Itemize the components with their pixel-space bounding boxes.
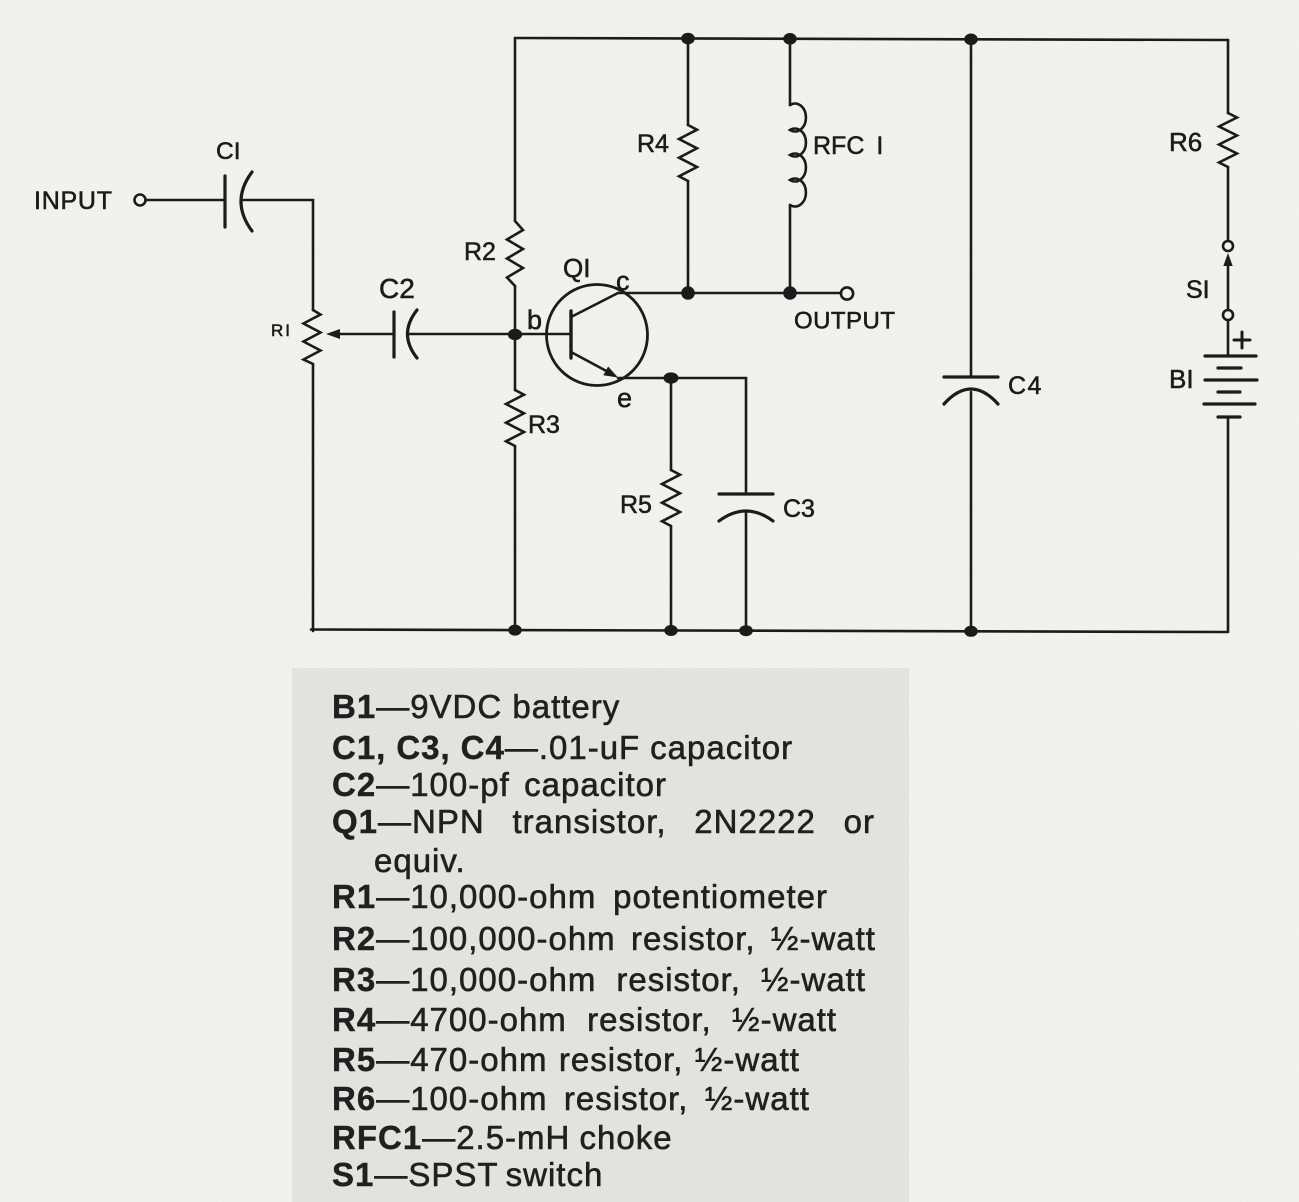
node b junction dot [508,329,522,340]
parts list gray background panel [292,668,909,1202]
wire: top supply rail [515,38,1228,40]
capacitor C3 [745,378,748,492]
OUTPUT terminal circle [841,287,853,299]
INPUT terminal circle [135,195,146,206]
inductor RFC1 [789,38,792,105]
capacitor C2 [394,310,417,358]
wire: INPUT terminal to C1 [146,199,224,202]
wire: collector line to OUTPUT [618,292,841,295]
junction dot R4 collector line [681,286,695,300]
parts list [332,690,620,723]
switch S1 [1223,241,1233,251]
transistor Q1 [515,285,648,386]
junction dot RFC1 collector line [783,286,797,300]
junction dot C3 ground [739,625,753,636]
wire: R1 bottom lead to ground rail [312,364,315,631]
wire: C1 to R1 top corner [243,200,313,310]
potentiometer R1 [304,310,321,364]
junction dot R3 ground [508,625,522,636]
junction dot RFC1 top rail [783,33,797,45]
wire: emitter line [618,377,746,380]
junction dot C4 top rail [964,34,978,46]
wire: battery to ground rail [1227,417,1230,631]
junction dot R4 top rail [681,33,695,45]
junction dot C4 ground [964,626,978,637]
label + polarity [1234,332,1250,348]
wire: C2 to node b [410,333,515,336]
resistor R6 [1227,40,1230,113]
resistor R3 [514,334,517,390]
capacitor C4 [970,38,973,375]
resistor R5 [670,378,673,470]
junction dot emitter node e [664,372,679,383]
capacitor C1 [225,172,252,231]
wire: S1 to battery [1227,320,1230,356]
junction dot R5 ground [664,625,678,636]
resistor R2 [514,38,517,221]
wire: bottom ground rail [311,630,1228,633]
resistor R4 [687,38,690,125]
potentiometer wiper arrow of R1 [338,333,394,336]
battery B1 [1204,356,1257,417]
